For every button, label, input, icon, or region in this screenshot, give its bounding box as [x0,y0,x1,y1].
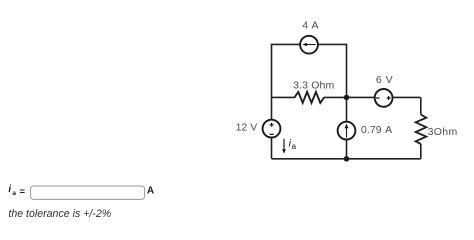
svg-text:6 V: 6 V [376,74,393,86]
svg-text:A: A [147,186,154,197]
svg-text:4 A: 4 A [302,20,318,32]
svg-text:12 V: 12 V [236,122,258,134]
svg-text:the tolerance is +/-2%: the tolerance is +/-2% [8,208,111,220]
svg-text:0.79 A: 0.79 A [361,124,392,136]
svg-text:=: = [20,186,25,196]
svg-text:a: a [12,190,16,197]
svg-text:3Ohm: 3Ohm [428,126,458,138]
svg-text:3.3 Ohm: 3.3 Ohm [293,79,334,91]
svg-text:i: i [8,184,11,195]
svg-text:a: a [292,142,297,151]
